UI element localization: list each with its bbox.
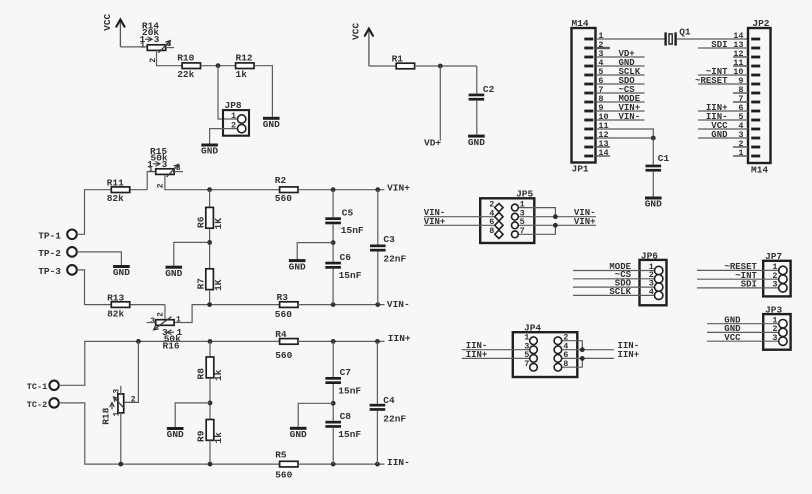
svg-text:JP7: JP7 — [765, 251, 782, 262]
wire R14 wiper to R10 — [157, 50, 183, 65]
svg-text:2: 2 — [149, 58, 158, 63]
wire ~INT to JP7 pin 2 — [697, 278, 779, 280]
svg-text:VD+: VD+ — [424, 137, 441, 148]
JP4 pin 6 — [554, 355, 562, 363]
resistor R4 560 — [280, 339, 298, 345]
svg-text:1: 1 — [231, 111, 236, 121]
wire VIN+ line to C5 — [332, 190, 334, 218]
JP7 pin 1 — [779, 266, 787, 274]
junction JP5 pins 1/3 — [553, 214, 558, 219]
wire R18 pin 1 to IIN- line — [120, 413, 122, 464]
wire JP1 pin 6 net SDO — [596, 83, 645, 85]
svg-text:22k: 22k — [177, 69, 194, 80]
svg-text:7: 7 — [520, 226, 525, 236]
svg-text:R8: R8 — [196, 368, 207, 380]
JP4 pin 7 — [530, 363, 538, 371]
junction IIN+ / C4 — [375, 339, 380, 344]
svg-text:R16: R16 — [163, 340, 180, 351]
wire TP-1 to R11 / R15 — [77, 190, 147, 235]
wire R6 to R7 — [209, 228, 211, 281]
wire JP4 pin 6 to IIN+ label — [562, 357, 614, 359]
wire IIN+ line to C7 — [332, 341, 334, 377]
svg-text:GND: GND — [165, 268, 182, 279]
wire C6 to VIN- line — [332, 269, 334, 305]
svg-text:SDI: SDI — [711, 40, 727, 50]
wire JP4 pin 8 to IIN+ node — [562, 358, 583, 367]
svg-text:2: 2 — [156, 312, 165, 317]
svg-text:1k: 1k — [236, 69, 248, 80]
svg-text:GND: GND — [289, 261, 306, 272]
wire JP2 pin 5 net IIN- — [698, 119, 748, 121]
JP3 pin 3 — [779, 337, 787, 345]
junction IIN- / C4 — [375, 462, 380, 467]
wire TP-2 to GND — [77, 252, 122, 265]
wire GND to JP3 pin 1 — [707, 323, 779, 325]
svg-text:JP2: JP2 — [752, 18, 769, 29]
capacitor C4 22nF — [370, 404, 386, 411]
JP5 pin 3 — [512, 213, 519, 220]
wire JP1 pin 5 net SCLK — [596, 74, 645, 76]
wire R9 to IIN- line — [209, 440, 211, 464]
potentiometer R14 body 20k — [147, 45, 165, 51]
capacitor C1 — [646, 165, 662, 172]
svg-text:560: 560 — [275, 350, 292, 361]
svg-text:VIN-: VIN- — [387, 299, 410, 310]
JP1 pin contacts — [584, 38, 593, 158]
svg-text:2: 2 — [131, 395, 136, 404]
resistor R6 1k — [206, 207, 214, 228]
ground (R6/R7 midpoint) — [165, 266, 182, 279]
svg-text:82k: 82k — [107, 309, 124, 320]
wire SDO to JP6 pin 3 — [573, 286, 655, 288]
wire R2 to VIN+ stub — [297, 189, 384, 191]
svg-text:SCLK: SCLK — [609, 287, 631, 297]
wire R3 to VIN- stub — [297, 304, 384, 306]
test point TP-1 — [38, 230, 77, 242]
wire SDI to JP7 pin 3 — [697, 287, 779, 289]
wire JP8 pin 2 to GND — [210, 129, 238, 144]
svg-text:1K: 1K — [213, 279, 224, 291]
svg-text:IIN+: IIN+ — [618, 350, 640, 360]
JP5 pin 1 — [512, 204, 519, 211]
svg-text:8: 8 — [489, 226, 494, 236]
svg-text:C5: C5 — [342, 207, 354, 218]
svg-text:C1: C1 — [658, 153, 670, 164]
resistor R3 560 — [280, 302, 298, 308]
JP6 pin 2 — [655, 275, 663, 283]
resistor R1 — [396, 63, 414, 69]
svg-text:82k: 82k — [107, 193, 124, 204]
wire JP5 pin 5 to VIN+ label — [518, 224, 596, 226]
R15 marking arrow — [153, 161, 160, 166]
JP4 pin 2 — [554, 337, 562, 345]
wire C3 to VIN- line — [377, 252, 379, 305]
resistor R2 560 — [280, 187, 298, 193]
wire R4 to IIN+ stub — [297, 340, 384, 342]
wire TC-2 to IIN- line / R5 — [59, 403, 280, 464]
junction IIN+ line / R8 — [208, 339, 213, 344]
JP5 pin 7 — [512, 231, 519, 238]
svg-text:IIN-: IIN- — [387, 457, 410, 468]
connector JP4 box — [513, 332, 578, 377]
JP2 pin 8 stub — [733, 92, 748, 94]
wire C5 to C6 — [332, 224, 334, 261]
wire JP2 pin 3 net GND — [698, 137, 748, 139]
wire JP1 pin 7 net ~CS — [596, 92, 645, 94]
wire C4 to IIN- line — [376, 411, 378, 464]
wire junction to VD+ stub — [439, 66, 441, 141]
junction VIN- / C3 — [375, 302, 380, 307]
svg-text:R4: R4 — [275, 329, 287, 340]
svg-text:GND: GND — [711, 130, 728, 140]
JP4 pin 4 — [554, 346, 562, 354]
svg-text:VIN+: VIN+ — [424, 217, 446, 227]
svg-text:R1: R1 — [392, 54, 404, 65]
JP2 pin 11 stub — [733, 65, 748, 67]
R14 wiper arrow — [159, 41, 171, 53]
svg-text:C8: C8 — [340, 411, 352, 422]
JP5 pin 2 — [495, 203, 503, 211]
resistor R7 1k — [206, 269, 214, 290]
svg-text:C6: C6 — [340, 252, 352, 263]
junction JP5 pins 5/7 — [553, 223, 558, 228]
junction VIN+ line / R6 — [207, 187, 212, 192]
svg-text:TP-2: TP-2 — [38, 248, 61, 259]
svg-text:15nF: 15nF — [341, 225, 364, 236]
wire JP5 pin 3 to VIN- label — [518, 216, 596, 218]
connector JP1 box (M14) — [572, 28, 596, 163]
wire C8 to IIN- line — [332, 428, 334, 464]
svg-text:VCC: VCC — [351, 23, 362, 40]
junction JP4 pins 2/4 — [580, 347, 585, 352]
svg-text:VCC: VCC — [724, 333, 741, 343]
svg-text:Q1: Q1 — [679, 27, 691, 38]
capacitor C8 15nF — [325, 421, 341, 428]
svg-text:560: 560 — [275, 309, 292, 320]
R16 pin 3 stub — [147, 322, 156, 324]
svg-text:GND: GND — [113, 267, 130, 278]
svg-text:C2: C2 — [483, 84, 495, 95]
JP5 pin 6 — [495, 221, 503, 229]
svg-text:C7: C7 — [340, 367, 352, 378]
svg-text:JP8: JP8 — [225, 100, 242, 111]
svg-text:3: 3 — [150, 317, 155, 326]
svg-text:C3: C3 — [383, 234, 395, 245]
connector JP5 box — [480, 198, 534, 243]
JP2 pin contacts — [751, 38, 760, 158]
wire JP1 pin 8 net MODE — [596, 101, 645, 103]
wire JP5 pin 1 to VIN- node — [518, 208, 555, 217]
svg-text:3: 3 — [154, 34, 160, 45]
svg-text:8: 8 — [563, 359, 568, 369]
wire C5/C6 midpoint to GND — [297, 243, 333, 260]
wire C7/C8 midpoint to GND — [298, 403, 333, 427]
connector JP6 box — [640, 260, 667, 305]
wire JP1 pin 3 net VD+ — [596, 56, 645, 58]
ground (C5/C6 midpoint) — [289, 259, 306, 272]
JP8 pin 1 — [238, 115, 246, 123]
svg-text:4: 4 — [649, 287, 654, 297]
wire R8 to R9 — [209, 378, 211, 430]
wire VCC to R1 — [369, 65, 396, 67]
svg-text:VIN-: VIN- — [619, 112, 641, 122]
svg-text:22nF: 22nF — [383, 414, 406, 425]
R14 marking arrow — [145, 37, 152, 42]
svg-text:SDI: SDI — [741, 280, 757, 290]
R14 pin 3 stub — [166, 47, 175, 49]
wire MODE to JP6 pin 1 — [573, 270, 655, 272]
wire R5 to IIN- stub — [297, 463, 384, 465]
wire R12 to GND — [254, 66, 273, 117]
svg-text:JP3: JP3 — [765, 305, 782, 316]
wire JP2 pin 10 net ~INT — [698, 74, 748, 76]
wire C1 to GND — [652, 172, 654, 197]
JP4 pin 3 — [530, 346, 538, 354]
wire to R15 pin 1 — [147, 172, 155, 190]
wire IIN+ line to C4 — [376, 341, 378, 403]
ground (below JP8) — [201, 144, 218, 157]
wire VIN- line to R16 wiper — [164, 305, 166, 320]
wire JP2 pin 13 net SDI — [698, 47, 748, 49]
svg-text:R5: R5 — [275, 449, 287, 460]
wire VIN+ into JP5 pin 6 — [424, 224, 494, 226]
power symbol VCC (top-left) — [102, 13, 124, 46]
wire R1 to C2 — [415, 65, 477, 67]
svg-text:R9: R9 — [196, 430, 207, 442]
junction IIN- line / R18 — [118, 462, 123, 467]
svg-text:GND: GND — [263, 119, 280, 130]
svg-text:2: 2 — [157, 183, 166, 188]
R15 pin 3 stub — [175, 171, 184, 173]
R15 wiper arrow — [167, 164, 179, 177]
R18 marking arrow — [110, 403, 115, 410]
connector JP8 box — [223, 110, 249, 136]
junction R1/C2/VD+ — [438, 64, 443, 69]
wire JP2 pin 4 net VCC — [698, 128, 748, 130]
capacitor C5 15nF — [325, 217, 341, 224]
ground (right of JP8) — [263, 117, 280, 130]
svg-text:~RESET: ~RESET — [695, 76, 728, 86]
wire JP1 pin 1 to crystal Q1 — [596, 38, 665, 40]
wire ~RESET to JP7 pin 1 — [697, 269, 779, 271]
JP2 pin 1 stub — [733, 155, 748, 157]
test point TP-2 — [38, 247, 77, 259]
svg-text:R18: R18 — [101, 407, 112, 424]
resistor R9 1k — [206, 420, 214, 441]
junction VIN- / C6 — [331, 302, 336, 307]
wire JP2 pin 9 net ~RESET — [698, 83, 748, 85]
capacitor C6 15nF — [325, 262, 341, 269]
svg-text:GND: GND — [201, 146, 218, 157]
svg-text:JP1: JP1 — [572, 164, 589, 175]
resistor R10 22k — [182, 63, 200, 69]
JP5 pin 5 — [512, 222, 519, 229]
power symbol VCC (top-middle) — [351, 23, 373, 66]
junction JP4 pins 6/8 — [580, 356, 585, 361]
junction JP1 pins 11/12 and C1 — [651, 136, 656, 141]
svg-text:R3: R3 — [277, 292, 289, 303]
svg-text:M14: M14 — [572, 18, 589, 29]
svg-text:22nF: 22nF — [383, 254, 406, 265]
JP2 pin 2 stub — [733, 146, 748, 148]
svg-text:TP-1: TP-1 — [38, 230, 61, 241]
junction VIN- line / R7 — [207, 302, 212, 307]
junction IIN+ / C7 — [331, 339, 336, 344]
potentiometer R16 body 50k — [156, 320, 174, 326]
svg-text:1K: 1K — [213, 218, 224, 230]
junction VIN+ / C5 — [331, 187, 336, 192]
svg-text:1: 1 — [148, 165, 153, 174]
wire R16 pin 1 to VIN- line / R3 — [175, 305, 280, 323]
junction VIN+ / C3 — [375, 187, 380, 192]
potentiometer R18 body — [118, 394, 124, 413]
svg-text:TP-3: TP-3 — [38, 266, 61, 277]
svg-text:7: 7 — [524, 359, 529, 369]
JP4 pin 1 — [530, 337, 538, 345]
junction IIN- / C8 — [331, 462, 336, 467]
test point TC-1 — [27, 381, 59, 393]
ground (C7/C8 midpoint) — [290, 427, 307, 440]
crystal Q1 — [664, 32, 676, 45]
R16 marking arrow — [167, 330, 174, 335]
svg-text:VIN+: VIN+ — [574, 217, 596, 227]
svg-text:VIN+: VIN+ — [387, 183, 410, 194]
svg-text:IIN+: IIN+ — [466, 350, 488, 360]
JP2 pin 7 stub — [733, 101, 748, 103]
svg-text:VCC: VCC — [102, 13, 113, 30]
wire JP1 pin 9 net VIN+ — [596, 110, 645, 112]
svg-text:R6: R6 — [195, 216, 206, 228]
wire TP-3 to R13 / R16 — [77, 270, 165, 305]
svg-text:1k: 1k — [213, 432, 224, 444]
svg-text:C4: C4 — [383, 395, 395, 406]
R18 wiper arrow — [114, 397, 125, 409]
wire VCC to R14 pin 1 — [120, 46, 147, 48]
JP1 pin 2 stub — [596, 47, 611, 49]
resistor R13 82k — [111, 302, 129, 308]
wire VCC to JP3 pin 3 — [707, 340, 779, 342]
capacitor C3 22nF — [370, 245, 386, 252]
wire VIN+ line to R6 — [209, 190, 211, 208]
wire JP5 pin 7 to VIN+ node — [518, 225, 555, 234]
potentiometer R15 body 50k — [156, 169, 174, 175]
svg-text:GND: GND — [468, 137, 485, 148]
wire crystal Q1 to JP2 pin 14 — [677, 38, 748, 40]
wire midpoint to GND — [175, 403, 210, 427]
JP1 pin 13 stub — [596, 146, 611, 148]
wire JP1 pin 10 net VIN- — [596, 119, 645, 121]
ground (TP-2) — [113, 265, 130, 278]
JP1 pin 14 stub — [596, 155, 611, 157]
JP7 pin 2 — [779, 275, 787, 283]
svg-text:JP5: JP5 — [516, 188, 533, 199]
svg-text:GND: GND — [167, 429, 184, 440]
capacitor C7 15nF — [325, 377, 341, 384]
ground (below C1) — [645, 197, 662, 210]
junction R6/R7 midpoint — [207, 240, 212, 245]
wire JP1 pin 12 to C1 — [596, 137, 654, 139]
JP7 pin 3 — [779, 284, 787, 292]
JP3 pin 1 — [779, 320, 787, 328]
svg-text:15nF: 15nF — [339, 270, 362, 281]
svg-text:GND: GND — [645, 199, 662, 210]
svg-text:R11: R11 — [107, 177, 124, 188]
JP8 pin 2 — [238, 124, 246, 132]
wire VIN- into JP5 pin 4 — [424, 216, 494, 218]
wire GND to JP3 pin 2 — [707, 331, 779, 333]
svg-text:TC-1: TC-1 — [27, 382, 47, 392]
svg-text:3: 3 — [112, 389, 121, 394]
wire R7 to VIN- line — [209, 290, 211, 305]
svg-text:IIN+: IIN+ — [388, 333, 411, 344]
svg-text:GND: GND — [290, 429, 307, 440]
R18 pin 3 stub — [120, 386, 122, 394]
wire ~CS to JP6 pin 2 — [573, 278, 655, 280]
JP6 pin 3 — [655, 283, 663, 291]
wire JP2 pin 6 net IIN+ — [698, 110, 748, 112]
svg-text:JP6: JP6 — [641, 250, 658, 261]
wire JP4 pin 2 to IIN- node — [562, 341, 583, 350]
resistor R12 1k — [236, 63, 254, 69]
wire junction to C1 — [652, 138, 654, 165]
R16 wiper arrow — [154, 317, 172, 330]
junction IIN+ line / R18 wiper — [136, 339, 141, 344]
svg-text:1: 1 — [738, 148, 743, 158]
JP6 pin 4 — [655, 291, 663, 299]
wire junction to JP8 pin 1 — [218, 66, 238, 119]
svg-text:560: 560 — [275, 470, 292, 481]
JP5 pin 4 — [495, 213, 503, 221]
JP6 pin 1 — [655, 266, 663, 274]
svg-text:1k: 1k — [213, 369, 224, 381]
svg-text:M14: M14 — [751, 165, 768, 176]
resistor R5 560 — [280, 461, 298, 467]
ground (R8/R9 midpoint) — [167, 427, 184, 440]
ground (below C2) — [468, 135, 485, 148]
wire IIN- into JP4 pin 3 — [462, 349, 530, 351]
wire JP1 pin 11 to pin 12 node — [596, 129, 654, 138]
svg-text:560: 560 — [275, 193, 292, 204]
svg-text:R13: R13 — [107, 293, 124, 304]
wire midpoint to GND — [174, 242, 210, 265]
svg-text:1: 1 — [140, 41, 145, 50]
wire JP4 pin 4 to IIN- label — [562, 349, 614, 351]
junction R8/R9 midpoint — [208, 401, 213, 406]
svg-text:R12: R12 — [236, 52, 253, 63]
junction IIN- line / R9 — [208, 462, 213, 467]
resistor R8 1k — [206, 357, 214, 378]
svg-text:14: 14 — [598, 148, 608, 158]
test point TC-2 — [27, 398, 59, 410]
wire TC-1 to IIN+ line / R4 — [59, 341, 280, 385]
wire IIN+ line to R8 — [209, 341, 211, 357]
JP3 pin 2 — [779, 328, 787, 336]
wire JP1 pin 4 net GND — [596, 65, 645, 67]
junction C7/C8 midpoint — [331, 401, 336, 406]
resistor R11 82k — [111, 187, 129, 193]
svg-text:15nF: 15nF — [338, 385, 361, 396]
wire IIN+ into JP4 pin 5 — [462, 357, 530, 359]
svg-text:R10: R10 — [177, 52, 194, 63]
svg-text:3: 3 — [772, 333, 777, 343]
svg-text:15nF: 15nF — [338, 429, 361, 440]
wire VIN+ line to C3 — [377, 190, 379, 245]
JP4 pin 5 — [530, 355, 538, 363]
junction C5/C6 midpoint — [331, 240, 336, 245]
svg-text:3: 3 — [772, 280, 777, 290]
wire IIN+ line to R18 wiper — [124, 341, 139, 402]
wire R10 to R12 — [201, 65, 236, 67]
